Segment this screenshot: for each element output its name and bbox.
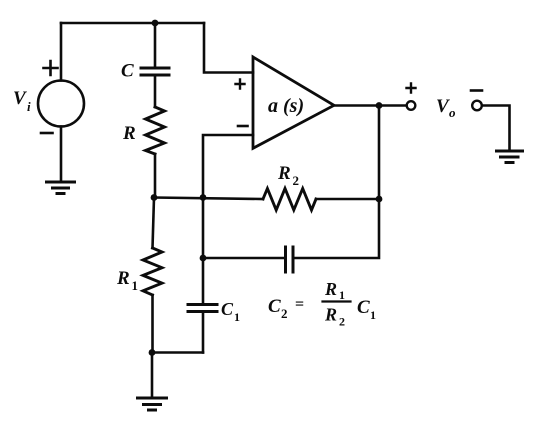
- capacitor C2: [286, 247, 294, 272]
- wire bottom ground stem: [151, 353, 154, 398]
- wire plus-input branch from top rail to op-amp: [204, 23, 253, 73]
- svg-text:=: =: [295, 296, 304, 313]
- svg-text:2: 2: [281, 306, 288, 321]
- svg-text:C: C: [357, 297, 370, 318]
- svg-text:i: i: [27, 99, 31, 114]
- wire from Vi bottom to ground: [60, 127, 63, 182]
- ground under Vi: [47, 182, 75, 194]
- resistor R: [146, 107, 165, 154]
- wire minus-input branch: [203, 135, 253, 198]
- svg-text:2: 2: [293, 173, 300, 188]
- node bottom junction: [149, 349, 156, 356]
- wire from top rail down to Vi source: [60, 23, 63, 81]
- svg-text:1: 1: [370, 308, 376, 322]
- wire from R1 to bottom junction: [151, 295, 154, 353]
- svg-text:C: C: [268, 296, 281, 317]
- wire from R2 to right vertical: [316, 198, 379, 201]
- plus sign of Vi: [44, 61, 58, 75]
- wire op-amp output: [334, 104, 407, 107]
- pin minus of op-amp: [238, 125, 248, 128]
- svg-text:1: 1: [339, 288, 345, 302]
- svg-text:R: R: [116, 268, 130, 289]
- node C2 left junction: [200, 255, 207, 262]
- minus sign of Vo: [471, 89, 482, 92]
- svg-text:a (s): a (s): [268, 95, 304, 117]
- wire R1 branch top: [153, 198, 155, 249]
- source Vi circle: [38, 81, 84, 127]
- svg-text:1: 1: [132, 278, 139, 293]
- node R2 right junction: [376, 196, 383, 203]
- resistor R1: [143, 248, 162, 295]
- wire from minus terminal to ground: [482, 106, 510, 151]
- svg-text:V: V: [13, 88, 27, 109]
- node row left junction: [151, 194, 158, 201]
- fraction bar of equation: [323, 300, 351, 302]
- svg-text:R: R: [324, 279, 337, 299]
- resistor R2: [263, 189, 316, 211]
- wire top rail: [61, 22, 204, 25]
- pin plus of op-amp: [236, 80, 245, 89]
- wire C branch from top rail: [154, 23, 157, 66]
- svg-text:C: C: [121, 61, 134, 82]
- svg-text:R: R: [277, 163, 291, 184]
- capacitor C1: [188, 305, 217, 312]
- wire from C1 down to bottom row: [202, 313, 205, 353]
- svg-text:R: R: [324, 305, 337, 325]
- svg-text:R: R: [122, 123, 136, 144]
- wire from R down to node row: [154, 154, 157, 198]
- svg-text:1: 1: [234, 310, 240, 324]
- wire between C and R: [154, 77, 157, 107]
- svg-text:C: C: [221, 299, 234, 319]
- svg-text:2: 2: [339, 315, 345, 329]
- wire node row: [154, 198, 263, 200]
- wire bottom row: [152, 351, 203, 354]
- ground at output: [497, 151, 523, 163]
- terminal plus output: [407, 101, 416, 110]
- wire from C2 left plate to mid vertical: [203, 257, 285, 260]
- minus sign of Vi: [41, 132, 53, 135]
- terminal minus output: [472, 101, 482, 111]
- plus sign of Vo: [407, 84, 416, 93]
- node mid junction: [200, 194, 207, 201]
- node output junction: [376, 102, 383, 109]
- wire right vertical from output to C2: [294, 106, 379, 259]
- wire mid vertical down to C1: [202, 198, 205, 304]
- ground at bottom: [138, 398, 167, 410]
- node top junction: [152, 20, 159, 27]
- capacitor C: [141, 68, 169, 75]
- svg-text:V: V: [436, 96, 450, 117]
- svg-text:o: o: [449, 105, 456, 120]
- op-amp U1 a(s): [253, 57, 334, 148]
- label equation C2 = R1/R2 C1: [268, 279, 376, 329]
